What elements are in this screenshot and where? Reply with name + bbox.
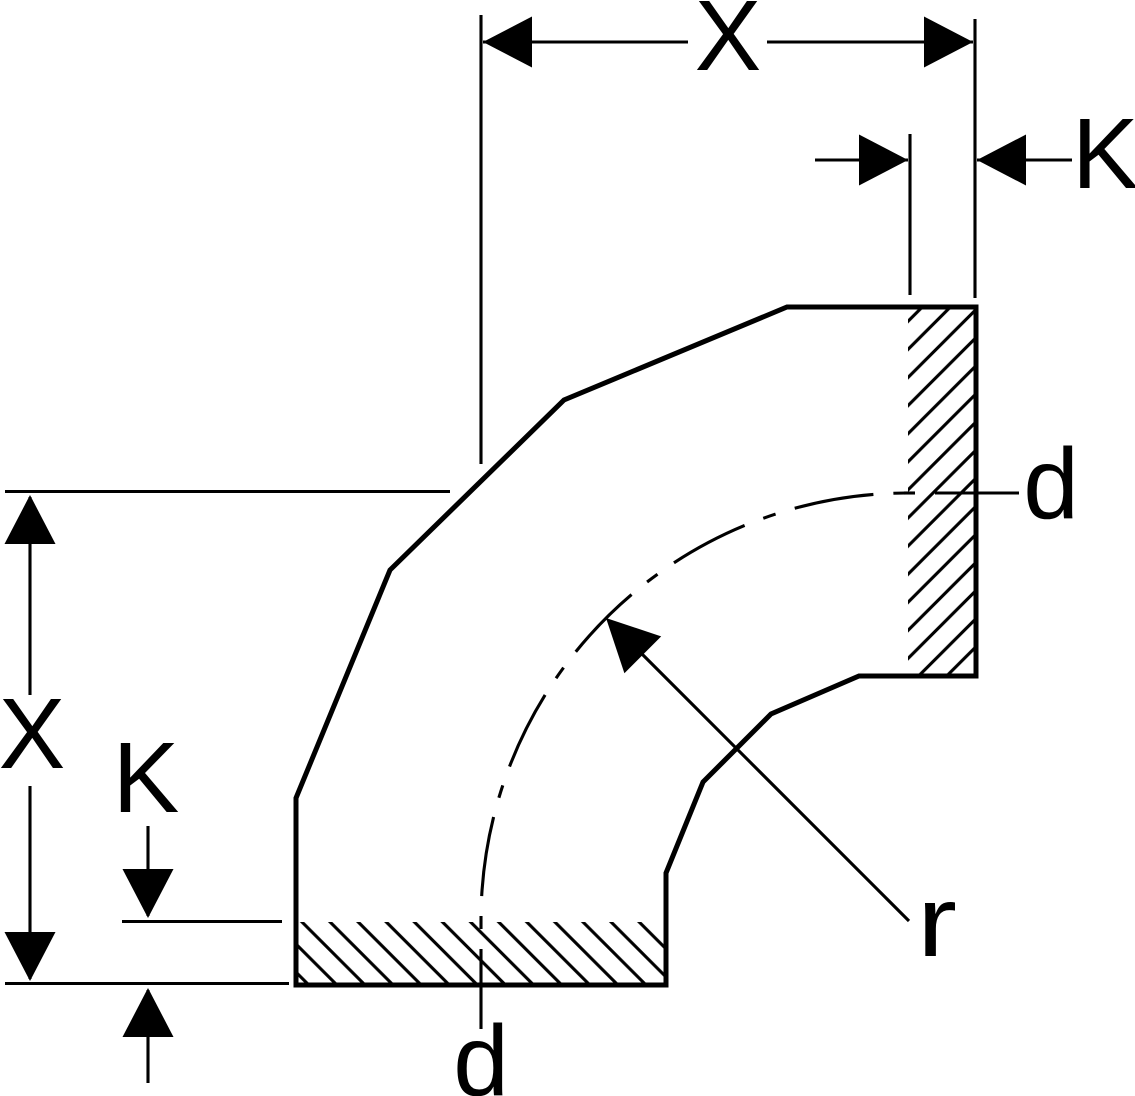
svg-text:X: X	[0, 678, 65, 790]
svg-text:d: d	[453, 1005, 509, 1096]
svg-text:K: K	[113, 722, 180, 834]
svg-text:X: X	[695, 0, 762, 92]
svg-text:K: K	[1072, 98, 1135, 210]
svg-text:r: r	[917, 866, 957, 978]
svg-text:d: d	[1023, 428, 1079, 540]
